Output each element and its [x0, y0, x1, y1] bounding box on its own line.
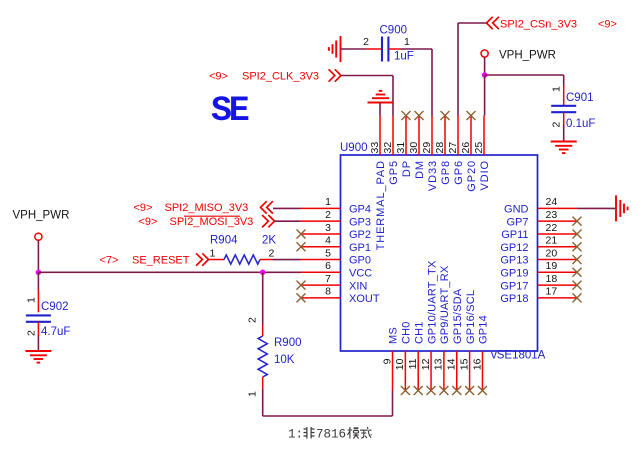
text SE (block label) [211, 91, 249, 131]
pin number 32 [382, 142, 394, 154]
pin name GP9/UART_RX (pin 13) [439, 265, 451, 344]
pin 16 stub [481, 351, 483, 391]
wire junction to pin 25 VDIO [484, 75, 486, 116]
value 2K [262, 235, 276, 247]
R904 pin 2 lead [260, 259, 273, 261]
pin 17 stub [538, 297, 578, 299]
svg-text:32: 32 [382, 142, 394, 154]
pin number 1 [325, 196, 331, 208]
C901 pin 2 lead [563, 112, 565, 124]
no-connect X pin 18 [573, 281, 582, 290]
svg-text:12: 12 [420, 358, 432, 370]
pin 3 stub [301, 233, 341, 235]
svg-text:GP0: GP0 [349, 255, 371, 267]
pin number 9 [381, 358, 393, 364]
no-connect X pin 30 [415, 111, 424, 120]
power symbol VPH_PWR (top right) [481, 50, 488, 57]
pin number 29 [421, 142, 433, 154]
refdes U900 [340, 142, 368, 154]
svg-text:VD33: VD33 [427, 160, 439, 191]
pin name MS (pin 9) [388, 327, 400, 344]
svg-text:GP17: GP17 [500, 280, 528, 292]
pin number 5 [325, 247, 331, 259]
svg-text:GP5: GP5 [388, 160, 400, 185]
C902 pin 1 lead [37, 290, 39, 312]
op-amp U900 (vSE1801A SE controller IC body) [341, 155, 538, 351]
wire VCC junction down to R900 [262, 272, 264, 325]
capacitor C900 [382, 37, 388, 62]
pin name GP18 (pin 17) [500, 293, 528, 305]
ground (thermal pad, pin 33), flipped up [368, 91, 394, 103]
svg-text:17: 17 [546, 286, 558, 298]
svg-text:30: 30 [408, 142, 420, 154]
svg-text:10: 10 [394, 358, 406, 370]
refdes C901 [566, 92, 594, 104]
caption 1:非7816模式 [288, 427, 372, 442]
R904 pin 1 lead [209, 259, 225, 261]
svg-text:27: 27 [447, 142, 459, 154]
pin number 4 [325, 235, 331, 247]
value 10K [274, 354, 295, 366]
value 1uF [394, 51, 414, 63]
pin name GP8 (pin 28) [440, 160, 452, 185]
pin number 2 of R900 [247, 317, 259, 323]
no-connect X pin 28 [441, 111, 450, 120]
wire pin 24 GND to ground [578, 207, 617, 209]
svg-text:GND: GND [504, 204, 529, 216]
wire SPI2_MOSI_3V3 to pin 2 [275, 220, 301, 222]
wire SPI2_CLK_3V3 to pin 32 [341, 76, 393, 116]
pin name GP20 (pin 26) [466, 160, 478, 192]
pin name XOUT (pin 8) [349, 293, 380, 305]
pin number 24 [546, 196, 558, 208]
pin name GP0 (pin 5) [349, 255, 371, 267]
svg-text:1: 1 [26, 297, 38, 303]
pin 14 stub [456, 351, 458, 391]
pin number 19 [546, 260, 558, 272]
no-connect X pin 19 [573, 268, 582, 277]
pin name THERMAL_PAD (pin 33) [375, 160, 387, 250]
svg-text:VPH_PWR: VPH_PWR [13, 210, 70, 222]
pin 27 stub [457, 116, 459, 156]
pin number 14 [446, 358, 458, 370]
pin number 10 [394, 358, 406, 370]
pin number 28 [434, 142, 446, 154]
C900 pin 2 lead [366, 48, 382, 50]
ground (left of C900), pointing left [329, 36, 341, 62]
pin number 18 [546, 273, 558, 285]
pin 24 stub [538, 207, 578, 209]
pin number 7 [325, 273, 331, 285]
port chevron SPI2_MISO_3V3 [261, 201, 273, 213]
net label SE_RESET with <7> page ref [100, 255, 190, 267]
svg-text:vSE1801A: vSE1801A [491, 350, 546, 362]
svg-text:11: 11 [407, 358, 419, 369]
svg-text:5: 5 [325, 247, 331, 259]
svg-text:<9>: <9> [134, 202, 153, 214]
pin 6 stub [301, 271, 341, 273]
net label VPH_PWR [499, 50, 556, 62]
svg-text:GP11: GP11 [501, 229, 528, 241]
svg-text:28: 28 [434, 142, 446, 154]
value 0.1uF [566, 118, 595, 130]
no-connect X pin 7 [297, 281, 306, 290]
pin number 30 [408, 142, 420, 154]
svg-text:SE: SE [211, 91, 249, 131]
svg-text:GP6: GP6 [453, 160, 465, 185]
svg-text:SPI2_MISO_3V3: SPI2_MISO_3V3 [165, 202, 249, 214]
wire C900 pin1 to pin 29 VD33 [401, 49, 433, 116]
wire junction to C901 [485, 75, 564, 86]
pin number 1 of R904 [210, 248, 216, 260]
net label VPH_PWR (left) [13, 210, 70, 222]
svg-text:<9>: <9> [209, 71, 228, 83]
svg-text:7816: 7816 [316, 428, 346, 442]
svg-text:GP7: GP7 [506, 216, 528, 228]
no-connect X pin 14 [452, 386, 461, 395]
svg-text:7: 7 [325, 273, 331, 285]
pin name GP12 (pin 21) [500, 242, 528, 254]
no-connect X pin 21 [573, 242, 582, 251]
svg-text:1: 1 [210, 248, 216, 260]
pin 9 stub [392, 351, 394, 391]
svg-text:GP15/SDA: GP15/SDA [452, 288, 464, 344]
svg-text:10K: 10K [274, 354, 295, 366]
port chevron SPI2_MOSI_3V3 [262, 215, 274, 227]
svg-text:2: 2 [551, 122, 563, 128]
pin 15 stub [469, 351, 471, 391]
power symbol VPH_PWR (left) [35, 233, 42, 240]
refdes C900 [380, 25, 408, 37]
refdes R900 [274, 337, 302, 349]
pin number 33 [369, 142, 381, 154]
wire SPI2_MISO_3V3 to pin 1 [273, 207, 301, 209]
pin name GP6 (pin 27) [453, 160, 465, 185]
svg-text:2: 2 [269, 248, 275, 260]
svg-text:R900: R900 [274, 337, 302, 349]
svg-text:1uF: 1uF [394, 51, 414, 63]
pin number 1 of R900 [247, 391, 259, 397]
svg-text:VPH_PWR: VPH_PWR [499, 50, 556, 62]
no-connect X pin 12 [427, 386, 436, 395]
wire C901 pin2 to ground [563, 124, 565, 142]
pin number 26 [460, 142, 472, 154]
svg-text:GP8: GP8 [440, 160, 452, 185]
pin name VDIO (pin 25) [479, 160, 491, 191]
svg-text:VDIO: VDIO [479, 160, 491, 191]
refdes R904 [210, 235, 238, 247]
svg-text:<9>: <9> [598, 19, 617, 31]
svg-text:<9>: <9> [139, 216, 158, 228]
pin name GP13 (pin 20) [500, 255, 528, 267]
svg-text:VCC: VCC [349, 268, 372, 280]
no-connect X pin 15 [465, 386, 474, 395]
svg-text:16: 16 [471, 358, 483, 370]
svg-text:GP10/UART_TX: GP10/UART_TX [426, 260, 438, 344]
pin name GP1 (pin 4) [349, 242, 371, 254]
pin number 12 [420, 358, 432, 370]
pin 13 stub [443, 351, 445, 391]
C900 pin 1 lead [388, 48, 400, 50]
capacitor C901 [551, 106, 576, 112]
pin number 20 [546, 247, 558, 259]
wire SPI2_CSn_3V3 to pin 27 [458, 23, 487, 116]
pin name GP7 (pin 23) [506, 216, 528, 228]
pin 2 stub [301, 220, 341, 222]
resistor R900 [258, 336, 267, 377]
pin number 21 [546, 235, 558, 247]
svg-text:3: 3 [325, 222, 331, 234]
wire VPH_PWR down to junction [484, 57, 486, 75]
svg-text:XOUT: XOUT [349, 293, 380, 305]
pin name DP (pin 31) [401, 160, 413, 177]
resistor R904 [224, 255, 260, 264]
svg-text:2: 2 [325, 209, 331, 221]
svg-text:25: 25 [473, 142, 485, 154]
svg-text:GP4: GP4 [349, 204, 371, 216]
svg-text:23: 23 [546, 209, 558, 221]
svg-text:2K: 2K [262, 235, 276, 247]
svg-text:CH0: CH0 [401, 321, 413, 344]
wire R904 to pin 5 GP0 [273, 259, 301, 261]
ground (below C901) [551, 142, 577, 154]
pin 28 stub [444, 116, 446, 156]
svg-text:GP19: GP19 [500, 268, 528, 280]
pin 31 stub [405, 116, 407, 156]
value 4.7uF [41, 326, 70, 338]
no-connect X pin 26 [467, 111, 476, 120]
pin number 16 [471, 358, 483, 370]
pin number 27 [447, 142, 459, 154]
pin 23 stub [538, 220, 578, 222]
wire ground to C900 pin 2 [341, 48, 367, 50]
pin 33 stub [379, 116, 381, 156]
ground (below C902) [25, 351, 51, 363]
pin number 8 [325, 286, 331, 298]
pin name GP4 (pin 1) [349, 204, 371, 216]
net label SPI2_CSn_3V3 with <9> page ref [500, 19, 617, 31]
pin name GP2 (pin 3) [349, 229, 371, 241]
pin number 2 of C901 [551, 122, 563, 128]
svg-text:22: 22 [546, 222, 558, 234]
svg-text:31: 31 [395, 142, 407, 154]
svg-text:DP: DP [401, 160, 413, 177]
svg-text:4.7uF: 4.7uF [41, 326, 70, 338]
port chevron SPI2_CSn_3V3 [487, 17, 499, 29]
pin 4 stub [301, 246, 341, 248]
pin 18 stub [538, 284, 578, 286]
svg-text:<7>: <7> [100, 255, 119, 267]
svg-text:18: 18 [546, 273, 558, 285]
svg-text:MS: MS [388, 327, 400, 344]
pin name GP10/UART_TX (pin 12) [426, 260, 438, 344]
svg-text:C901: C901 [566, 92, 594, 104]
svg-text:9: 9 [381, 358, 393, 364]
port chevron SE_RESET [196, 253, 208, 265]
pin number 1 of C902 [26, 297, 38, 303]
svg-text:C900: C900 [380, 25, 408, 37]
svg-text:8: 8 [325, 286, 331, 298]
pin number 1 of C900 [404, 36, 410, 48]
svg-text:1:: 1: [288, 428, 303, 442]
svg-text:1: 1 [325, 196, 331, 208]
wire VPH_PWR down to junction [37, 240, 39, 272]
pin name GP19 (pin 19) [500, 268, 528, 280]
svg-text:26: 26 [460, 142, 472, 154]
refdes C902 [41, 301, 69, 313]
pin 5 stub [301, 259, 341, 261]
no-connect X pin 13 [439, 386, 448, 395]
pin name VCC (pin 6) [349, 268, 372, 280]
pin number 1 of C901 [551, 86, 563, 92]
svg-text:20: 20 [546, 247, 558, 259]
svg-text:GP9/UART_RX: GP9/UART_RX [439, 265, 451, 344]
pin 29 stub [431, 116, 433, 156]
no-connect X pin 10 [401, 386, 410, 395]
pin name VD33 (pin 29) [427, 160, 439, 191]
svg-text:21: 21 [546, 235, 558, 247]
svg-text:R904: R904 [210, 235, 238, 247]
net label SPI2_CLK_3V3 with <9> page ref [209, 71, 319, 83]
pin 10 stub [404, 351, 406, 391]
svg-text:1: 1 [247, 391, 259, 397]
pin name DM (pin 30) [414, 160, 426, 179]
no-connect X pin 8 [297, 293, 306, 302]
pin 26 stub [470, 116, 472, 156]
pin number 23 [546, 209, 558, 221]
svg-text:13: 13 [433, 358, 445, 370]
pin number 2 of C900 [363, 36, 369, 48]
wire ground to pin 33 [379, 103, 381, 116]
no-connect X pin 23 [573, 217, 582, 226]
pin name GP3 (pin 2) [349, 216, 371, 228]
pin name GP16/SCL (pin 15) [465, 290, 477, 344]
svg-text:DM: DM [414, 160, 426, 179]
pin number 11 [407, 358, 419, 369]
no-connect X pin 31 [402, 111, 411, 120]
ground (right of pin 24), pointing right [616, 195, 628, 221]
svg-text:24: 24 [546, 196, 558, 208]
junction node VPH_PWR/C902/VCC [36, 270, 42, 276]
capacitor C902 [26, 315, 51, 321]
svg-text:GP2: GP2 [349, 229, 371, 241]
pin name GP5 (pin 32) [388, 160, 400, 185]
svg-text:33: 33 [369, 142, 381, 154]
no-connect X pin 22 [573, 229, 582, 238]
junction node VCC/R900 [260, 270, 266, 276]
svg-text:19: 19 [546, 260, 558, 272]
svg-text:GP20: GP20 [466, 160, 478, 192]
svg-text:GP1: GP1 [349, 242, 371, 254]
no-connect X pin 20 [573, 255, 582, 264]
svg-text:GP14: GP14 [478, 315, 490, 344]
svg-text:29: 29 [421, 142, 433, 154]
port chevron SPI2_CLK_3V3 [329, 69, 341, 81]
R900 pin 2 lead [262, 325, 264, 336]
svg-text:1: 1 [551, 86, 563, 92]
pin number 13 [433, 358, 445, 370]
no-connect X pin 11 [414, 386, 423, 395]
pin name GP11 (pin 22) [501, 229, 528, 241]
no-connect X pin 4 [297, 242, 306, 251]
svg-text:2: 2 [363, 36, 369, 48]
net label SPI2_MISO_3V3 with <9> page ref [134, 202, 249, 214]
pin 11 stub [417, 351, 419, 391]
no-connect X pin 17 [573, 293, 582, 302]
pin number 17 [546, 286, 558, 298]
wire C902 pin2 to ground [37, 335, 39, 351]
pin name GP14 (pin 16) [478, 315, 490, 344]
svg-text:1: 1 [404, 36, 410, 48]
C902 pin 2 lead [37, 322, 39, 335]
pin name CH1 (pin 11) [413, 321, 425, 344]
svg-text:SPI2_CSn_3V3: SPI2_CSn_3V3 [500, 19, 577, 31]
pin 20 stub [538, 259, 578, 261]
pin 22 stub [538, 233, 578, 235]
pin number 2 [325, 209, 331, 221]
pin number 2 of R904 [269, 248, 275, 260]
svg-text:15: 15 [458, 358, 470, 370]
svg-text:GP13: GP13 [500, 255, 528, 267]
no-connect X pin 16 [478, 386, 487, 395]
svg-text:2: 2 [247, 317, 259, 323]
net label SPI2_MOSI_3V3 with <9> page ref and overbar [139, 216, 254, 228]
pin name XIN (pin 7) [349, 280, 367, 292]
pin 12 stub [430, 351, 432, 391]
wire R900 pin1 to pin 9 MS [263, 389, 393, 416]
wire VCC rail to pin 6 [38, 271, 300, 273]
C901 pin 1 lead [563, 86, 565, 106]
pin name GP15/SDA (pin 14) [452, 288, 464, 344]
svg-text:4: 4 [325, 235, 331, 247]
svg-text:GP18: GP18 [500, 293, 528, 305]
svg-text:GP12: GP12 [500, 242, 528, 254]
svg-text:C902: C902 [41, 301, 69, 313]
pin 21 stub [538, 246, 578, 248]
pin 7 stub [301, 284, 341, 286]
pin 30 stub [418, 116, 420, 156]
svg-text:0.1uF: 0.1uF [566, 118, 595, 130]
pin number 2 of C902 [26, 330, 38, 336]
svg-text:SE_RESET: SE_RESET [132, 255, 190, 267]
svg-text:6: 6 [325, 260, 331, 272]
pin 32 stub [392, 116, 394, 156]
pin number 22 [546, 222, 558, 234]
pin 8 stub [301, 297, 341, 299]
pin name CH0 (pin 10) [401, 321, 413, 344]
pin number 15 [458, 358, 470, 370]
svg-text:SPI2_CLK_3V3: SPI2_CLK_3V3 [242, 71, 319, 83]
svg-text:XIN: XIN [349, 280, 367, 292]
svg-text:GP3: GP3 [349, 216, 371, 228]
pin number 3 [325, 222, 331, 234]
no-connect X pin 3 [297, 229, 306, 238]
svg-text:14: 14 [446, 358, 458, 370]
pin name GND (pin 24) [504, 204, 529, 216]
R900 pin 1 lead [262, 377, 264, 389]
pin number 6 [325, 260, 331, 272]
pin 25 stub [483, 116, 485, 156]
junction node VPH_PWR/C901/VDIO [482, 72, 488, 78]
part value vSE1801A [491, 350, 546, 362]
svg-text:THERMAL_PAD: THERMAL_PAD [375, 160, 387, 250]
pin number 31 [395, 142, 407, 154]
svg-text:GP16/SCL: GP16/SCL [465, 290, 477, 344]
svg-text:U900: U900 [340, 142, 368, 154]
wire junction to C902 [37, 272, 39, 290]
pin number 25 [473, 142, 485, 154]
svg-text:CH1: CH1 [413, 321, 425, 344]
